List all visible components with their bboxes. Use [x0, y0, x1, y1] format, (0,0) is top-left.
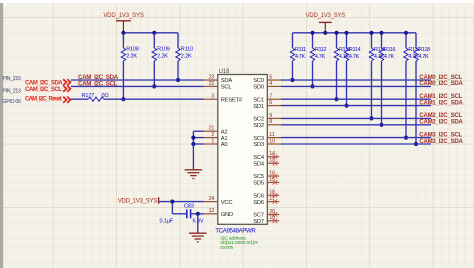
svg-text:CAM0_I2C_SCL: CAM0_I2C_SCL [419, 75, 462, 81]
pin 18 SC6 (right) [267, 194, 279, 196]
svg-text:PIN_215: PIN_215 [3, 76, 22, 82]
svg-text:SD4: SD4 [253, 161, 265, 167]
wire CAM3_I2C_SDA [281, 143, 431, 145]
svg-text:SC5: SC5 [253, 174, 264, 180]
svg-text:C83: C83 [184, 204, 194, 210]
junction rail/R108 stem [121, 31, 125, 35]
resistor R112 [312, 33, 314, 48]
svg-text:4.7K: 4.7K [295, 54, 306, 60]
svg-text:PIN_213: PIN_213 [3, 89, 22, 95]
pin 7 SC1 (right) [267, 98, 281, 100]
svg-text:SD5: SD5 [253, 181, 264, 187]
pin 20 SC7 (right) [267, 213, 279, 215]
svg-text:SC4: SC4 [253, 155, 265, 161]
resistor R108 [122, 33, 124, 48]
wire top-left rail [123, 32, 178, 34]
svg-text:22: 22 [209, 81, 215, 87]
svg-text:2.2K: 2.2K [126, 53, 137, 59]
svg-text:SD3: SD3 [253, 142, 264, 148]
svg-text:R108: R108 [126, 47, 139, 53]
pin 8 SD2 (right) [267, 124, 281, 126]
svg-text:SD1: SD1 [253, 104, 264, 110]
wire SDA net [71, 79, 204, 81]
svg-text:CAM2_I2C_SCL: CAM2_I2C_SCL [419, 113, 462, 119]
svg-text:R177: R177 [82, 93, 95, 99]
junction R110/SDA net [176, 78, 180, 82]
pin 21 A2 (left) [204, 130, 218, 132]
svg-text:VDD_1V3_SYS: VDD_1V3_SYS [306, 13, 346, 19]
junction R116 to net [379, 123, 383, 127]
junction R108/reset net [121, 97, 125, 101]
pin 1 A0 (left) [204, 143, 218, 145]
junction A1 [191, 136, 195, 140]
svg-text:4: 4 [269, 81, 272, 87]
svg-text:A0: A0 [221, 142, 228, 148]
wire CAM1_I2C_SCL [281, 98, 431, 100]
junction rail/R109 [152, 31, 156, 35]
wire CAM0_I2C_SCL [281, 79, 431, 81]
svg-text:CAM_I2C_SDA: CAM_I2C_SDA [25, 81, 63, 87]
svg-text:7: 7 [269, 94, 272, 100]
resistor R118 [415, 33, 417, 48]
svg-text:VDD_1V3_SYS: VDD_1V3_SYS [118, 199, 158, 205]
svg-text:23: 23 [209, 74, 215, 80]
wire reset to R177 [71, 98, 88, 100]
svg-text:CAM0_I2C_SDA: CAM0_I2C_SDA [419, 81, 463, 87]
junction R115 to net [369, 116, 373, 120]
svg-text:21: 21 [209, 126, 215, 132]
pin 23 SDA (left) [204, 79, 218, 81]
svg-text:VCC: VCC [221, 200, 233, 206]
svg-text:9: 9 [269, 113, 272, 119]
svg-text:SC0: SC0 [253, 78, 264, 84]
svg-text:R112: R112 [315, 47, 327, 53]
svg-text:8: 8 [269, 119, 272, 125]
wire to ground symbol [197, 214, 199, 233]
svg-text:SC3: SC3 [253, 136, 264, 142]
svg-text:SC7: SC7 [253, 213, 264, 219]
ground (C83/GND) [189, 232, 207, 234]
svg-text:10: 10 [269, 138, 275, 144]
resistor R115 [371, 33, 373, 48]
svg-text:2.2K: 2.2K [157, 53, 168, 59]
pin 6 SD1 (right) [267, 105, 281, 107]
svg-text:0.1μF: 0.1μF [160, 219, 174, 225]
svg-text:SC6: SC6 [253, 193, 264, 199]
wire A0 tie [193, 143, 204, 145]
svg-text:SD2: SD2 [253, 123, 264, 129]
junction R118 to net [414, 142, 418, 146]
wire VCC net [159, 201, 204, 203]
svg-text:GPIO 06: GPIO 06 [3, 99, 21, 105]
resistor R109 [153, 33, 155, 48]
svg-text:SDA: SDA [221, 78, 233, 84]
svg-text:4.7K: 4.7K [384, 54, 395, 60]
svg-text:4.7K: 4.7K [349, 54, 360, 60]
junction A0 [191, 142, 195, 146]
resistor R117 [405, 33, 407, 48]
svg-text:2: 2 [211, 132, 214, 138]
pin 11 SC3 (right) [267, 137, 281, 139]
resistor R111 [292, 33, 294, 48]
svg-text:5: 5 [269, 74, 272, 80]
svg-text:U18: U18 [219, 69, 230, 75]
svg-text:CAM3_I2C_SCL: CAM3_I2C_SCL [419, 132, 462, 138]
svg-text:1: 1 [211, 138, 214, 144]
pin 10 SD3 (right) [267, 143, 281, 145]
svg-text:R110: R110 [181, 47, 193, 53]
pin 24 VCC (left) [204, 201, 218, 203]
pin 12 GND (left) [204, 213, 218, 215]
svg-text:3: 3 [211, 94, 214, 100]
svg-text:6: 6 [269, 100, 272, 106]
svg-text:GND: GND [221, 212, 233, 218]
svg-text:SD7: SD7 [253, 219, 264, 225]
junction VCC/C83 branch [170, 200, 174, 204]
pin 19 SD7 (right) [267, 220, 279, 222]
junction rail/stem [323, 31, 327, 35]
junction R114 to net [344, 104, 348, 108]
pin 13 SD4 (right) [267, 162, 279, 164]
wire CAM3_I2C_SCL [281, 137, 431, 139]
junction R112 to net [310, 84, 314, 88]
wire A1 tie [193, 137, 204, 139]
wire top-right rail [293, 32, 417, 34]
pin 3 RESET# (left) [204, 98, 218, 100]
junction rail/R112 [310, 31, 314, 35]
pin 14 SC4 (right) [267, 156, 279, 158]
svg-text:A1: A1 [221, 136, 228, 142]
wire CAM1_I2C_SDA [281, 105, 431, 107]
junction R109/SCL net [152, 84, 156, 88]
junction R117 to net [404, 136, 408, 140]
wire R177 to RESET# pin [104, 98, 204, 100]
wire SCL net [71, 85, 204, 87]
svg-text:11: 11 [269, 132, 274, 138]
svg-text:TCA9548APWR: TCA9548APWR [215, 228, 256, 234]
resistor R110 [177, 33, 179, 48]
ground (A-pins) [185, 169, 203, 171]
wire CAM0_I2C_SDA [281, 85, 431, 87]
pin 17 SD6 (right) [267, 201, 279, 203]
svg-text:SCL: SCL [221, 85, 233, 91]
svg-text:RESET#: RESET# [221, 97, 243, 103]
wire A-pins vertical [192, 131, 194, 144]
svg-text:24: 24 [209, 196, 215, 202]
wire A2 tie [193, 130, 204, 132]
svg-text:R109: R109 [157, 47, 170, 53]
svg-text:0Ω: 0Ω [102, 93, 109, 99]
svg-text:R114: R114 [349, 47, 361, 53]
wire CAM2_I2C_SCL [281, 117, 431, 119]
junction rail/R115 [369, 31, 373, 35]
junction R113 to net [334, 97, 338, 101]
junction rail/R117 [404, 31, 408, 35]
resistor R114 [346, 33, 348, 48]
resistor R113 [336, 33, 338, 48]
svg-text:CAM_I2C_Reset: CAM_I2C_Reset [25, 96, 62, 102]
pin 22 SCL (left) [204, 85, 218, 87]
svg-text:SD0: SD0 [253, 85, 264, 91]
pin 5 SC0 (right) [267, 79, 281, 81]
wire C83 branch vertical [171, 202, 173, 214]
svg-text:R118: R118 [418, 47, 430, 53]
svg-text:4.7K: 4.7K [315, 54, 326, 60]
svg-text:2.2K: 2.2K [181, 53, 192, 59]
svg-text:CAM_I2C_SCL: CAM_I2C_SCL [25, 87, 62, 93]
junction rail/R114 [344, 31, 348, 35]
resistor R177 [88, 97, 104, 101]
svg-text:4.7K: 4.7K [418, 54, 429, 60]
wire to C83 [172, 213, 186, 215]
svg-text:SD6: SD6 [253, 200, 264, 206]
svg-text:CAM1_I2C_SDA: CAM1_I2C_SDA [419, 100, 463, 106]
pin 9 SC2 (right) [267, 117, 281, 119]
junction R111 to net [290, 78, 294, 82]
wire A0 to ground [192, 144, 194, 170]
svg-text:SC2: SC2 [253, 117, 264, 123]
resistor R116 [381, 33, 383, 48]
pin 4 SD0 (right) [267, 85, 281, 87]
svg-text:A2: A2 [221, 129, 228, 135]
junction rail/R113 [334, 31, 338, 35]
svg-text:SC1: SC1 [253, 97, 264, 103]
svg-text:12: 12 [209, 208, 215, 214]
svg-text:0x70h: 0x70h [221, 245, 234, 251]
capacitor C83 [186, 209, 188, 218]
pin 15 SD5 (right) [267, 181, 279, 183]
svg-text:CAM1_I2C_SCL: CAM1_I2C_SCL [419, 94, 462, 100]
junction GND/ground [196, 212, 200, 216]
svg-text:CAM3_I2C_SDA: CAM3_I2C_SDA [419, 139, 463, 145]
svg-text:VDD_1V3_SYS: VDD_1V3_SYS [103, 13, 144, 19]
op-amp U18 body (TCA9548A) [218, 75, 267, 225]
svg-text:CAM2_I2C_SDA: CAM2_I2C_SDA [419, 120, 463, 126]
pin 16 SC5 (right) [267, 175, 279, 177]
svg-text:R116: R116 [384, 47, 396, 53]
junction rail/R116 [379, 31, 383, 35]
pin 2 A1 (left) [204, 137, 218, 139]
svg-text:R111: R111 [295, 47, 306, 53]
wire CAM2_I2C_SDA [281, 124, 431, 126]
svg-text:CAM_I2C_SCL: CAM_I2C_SCL [78, 80, 118, 87]
wire C83 to GND pin [191, 213, 204, 215]
